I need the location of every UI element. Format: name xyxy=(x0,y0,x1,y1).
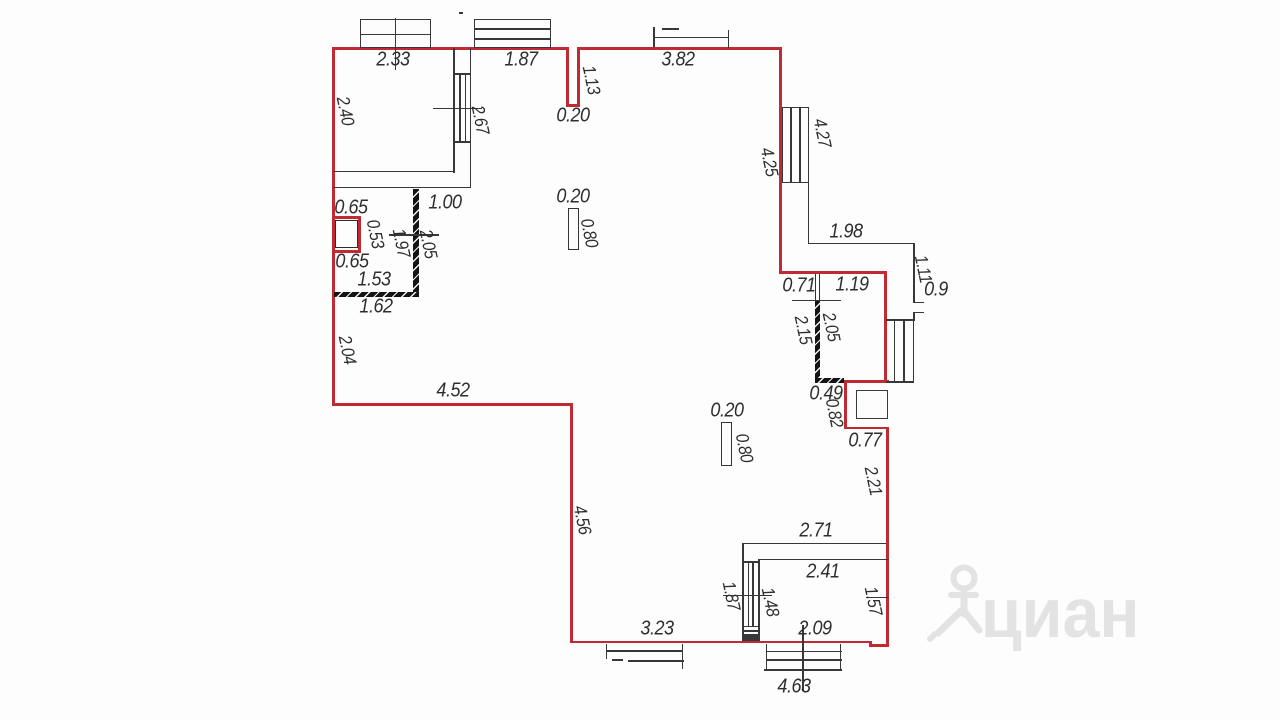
wall horizontal above shaft xyxy=(844,380,889,383)
wall right vertical with window xyxy=(884,271,887,383)
label 3.82 xyxy=(661,48,694,71)
watermark cian logo xyxy=(918,550,1158,655)
label 0.49 xyxy=(809,383,842,406)
interior window tick top xyxy=(453,73,471,75)
label 4.56 xyxy=(569,504,596,537)
window right 4.25 inner a xyxy=(790,107,792,183)
door partition inner a xyxy=(748,562,750,626)
balcony2 line b xyxy=(766,659,842,661)
svg-text:циан: циан xyxy=(981,574,1140,652)
wall notch bottom xyxy=(566,104,580,107)
label 0.82 xyxy=(821,397,848,430)
dimension 1.11 vertical xyxy=(913,243,915,303)
balcony2 left edge xyxy=(766,644,768,670)
interior window inner line b xyxy=(465,74,467,142)
window top-2 line a xyxy=(474,28,551,30)
dimension tick 1.87/1.48 xyxy=(723,595,772,597)
window top-left mid line xyxy=(360,34,431,36)
label 4.27 xyxy=(808,116,835,149)
door partition tick mid xyxy=(742,626,760,628)
label 0.71 xyxy=(782,275,815,298)
door partition bottom box xyxy=(742,634,760,641)
wall bottom step vertical xyxy=(869,641,872,648)
interior window tick bottom xyxy=(453,141,471,143)
label 4.52 xyxy=(436,380,469,403)
shaft red square outer xyxy=(332,216,362,253)
wall right upper vertical xyxy=(779,47,782,274)
label 3.23 xyxy=(640,618,673,641)
dimension vertical through 2.33 window xyxy=(395,18,397,71)
label 1.53 xyxy=(357,269,390,292)
label 2.71 xyxy=(799,519,832,542)
wall bottom step horizontal xyxy=(869,644,889,647)
label 2.21 xyxy=(860,464,887,497)
balcony1 line upper xyxy=(606,650,684,652)
room bottom line upper xyxy=(333,171,455,173)
label 1.11 xyxy=(909,253,935,285)
label 0.80 pillar2 xyxy=(730,431,757,464)
balcony2 bottom line xyxy=(764,669,843,671)
wall jog bottom horizontal xyxy=(844,427,888,430)
label 1.19 xyxy=(835,274,868,297)
wall jog left vertical xyxy=(844,380,847,429)
balcony1 small dash xyxy=(612,659,623,661)
dimension bracket 3.82 left tick xyxy=(653,27,655,47)
label 4.63 xyxy=(777,676,810,699)
interior window inner line a xyxy=(459,74,461,142)
line 2.71 xyxy=(742,543,886,545)
balcony1 right tick xyxy=(682,644,684,670)
label 2.09 xyxy=(798,617,831,640)
dimension 0.9 tick upper xyxy=(913,302,924,304)
label 1.87 bottom xyxy=(717,580,744,613)
label 1.98 xyxy=(829,220,862,243)
window top-2 frame xyxy=(474,19,551,48)
wall notch right vertical xyxy=(577,47,580,107)
label 2.67 xyxy=(467,104,494,137)
window right-mid top edge xyxy=(886,319,914,321)
wall top-left segment xyxy=(332,47,569,50)
dimension tick 0.71/1.19 xyxy=(792,300,841,302)
label 0.77 xyxy=(848,429,881,452)
partition hatched horizontal P4 xyxy=(815,378,844,383)
line 2.41 xyxy=(758,559,889,561)
label 2.05 right xyxy=(818,310,845,343)
wall top-right segment xyxy=(577,47,782,50)
wall left-bottom vertical xyxy=(570,403,573,643)
wall horizontal at y272 xyxy=(779,271,887,274)
window right 4.25 inner b xyxy=(799,107,801,183)
interior wall vertical right line xyxy=(470,48,472,188)
window right 4.25 frame xyxy=(782,107,809,183)
label 2.15 xyxy=(790,313,817,346)
balcony2 right edge xyxy=(840,644,842,670)
scan dot xyxy=(459,12,463,14)
label 0.53 xyxy=(361,217,388,250)
label 1.97 xyxy=(387,227,414,260)
door partition inner b xyxy=(752,562,754,626)
partition hatched horizontal P2 xyxy=(334,292,420,297)
dimension bracket 3.82 small dash xyxy=(662,28,679,30)
dimension tick 1.57 xyxy=(866,597,889,599)
wall line below window xyxy=(808,183,810,245)
label 1.62 xyxy=(359,296,392,319)
balcony1 line lower xyxy=(628,660,684,662)
label 0.65 upper xyxy=(334,196,367,219)
window right-mid bottom edge xyxy=(886,381,914,383)
wall left vertical xyxy=(332,47,335,406)
balcony1 left tick xyxy=(606,644,608,659)
room bottom line lower xyxy=(333,187,471,189)
pillar 0.20x0.80 lower xyxy=(721,422,733,466)
window top-2 line b xyxy=(474,38,551,40)
label 0.20 notch xyxy=(556,104,589,127)
shaft black square right xyxy=(856,390,888,419)
wall bottom main xyxy=(570,641,872,644)
label 1.57 xyxy=(860,584,887,617)
label 1.48 xyxy=(757,586,784,619)
label 2.40 xyxy=(331,94,358,127)
shaft red square inner black xyxy=(335,220,359,249)
label 0.20 pillar1 xyxy=(556,185,589,208)
door partition tick low xyxy=(742,630,760,632)
wall notch left vertical xyxy=(566,47,569,107)
partition hatched vertical P3 upper double-line xyxy=(815,274,820,302)
window right-mid line a xyxy=(894,319,896,382)
partition hatched vertical P1 xyxy=(413,189,419,297)
dimension tick 1.97/2.05 xyxy=(389,234,439,236)
door partition right vertical xyxy=(758,559,760,640)
dimension bracket 3.82 right tick xyxy=(728,30,730,48)
wall mid horizontal 4.52 xyxy=(332,403,573,406)
pillar 0.20x0.80 upper xyxy=(568,208,579,251)
label 0.65 lower xyxy=(335,250,368,273)
dimension tick 2.67 xyxy=(433,108,482,110)
label 2.41 xyxy=(806,561,839,584)
dimension 1.98 line xyxy=(808,243,915,245)
dimension 0.9 tick lower L xyxy=(913,312,924,314)
dimension bracket 3.82 horizontal xyxy=(653,37,729,39)
interior wall vertical left line xyxy=(453,48,455,173)
label 4.25 xyxy=(755,145,782,178)
door partition tick top xyxy=(742,561,760,563)
line 2.71 left vertical xyxy=(742,543,744,640)
balcony2 line a xyxy=(766,651,842,653)
label 1.13 xyxy=(577,63,604,96)
label 1.00 xyxy=(428,191,461,214)
label 0.80 pillar1 xyxy=(576,216,603,249)
dimension vertical 4.63 xyxy=(802,625,804,691)
window right-mid line c xyxy=(913,319,915,382)
label 0.9 xyxy=(924,278,948,301)
window top-left frame xyxy=(360,19,431,48)
window right-mid line b xyxy=(903,319,905,382)
partition hatched vertical P3 xyxy=(815,300,820,381)
label 0.20 pillar2 xyxy=(710,400,743,423)
label 2.04 xyxy=(333,333,360,366)
wall right lower vertical xyxy=(886,427,889,647)
label 2.05 corridor xyxy=(414,227,441,260)
label 2.33 xyxy=(376,49,409,72)
label 1.87 top xyxy=(504,49,537,72)
